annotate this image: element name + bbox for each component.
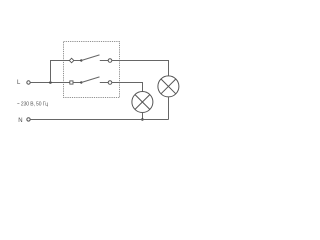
wire S1 output to lamp E2 [112, 61, 169, 76]
switch S1 output terminal (circle) [108, 59, 112, 63]
switch S2 lever [81, 77, 99, 83]
wire S2 fixed contact stub [100, 82, 108, 84]
wire S2 output to lamp E1 [112, 83, 143, 92]
switch S1 lever [81, 55, 99, 61]
svg-text:N: N [18, 118, 22, 124]
switch S2 pivot [80, 81, 82, 83]
wire S2 input to pivot [73, 82, 81, 84]
switch S1 input terminal (diamond) [69, 58, 74, 63]
wire S1 fixed contact stub [100, 60, 108, 62]
switch S2 input terminal (square) [70, 81, 73, 84]
wire N return [30, 119, 168, 121]
wire S1 input to pivot [74, 60, 82, 62]
svg-text:L: L [17, 80, 21, 86]
lamp E2 [158, 76, 179, 97]
switch module enclosure (dashed box) [64, 42, 120, 98]
junction lamp E1 / N [141, 118, 144, 121]
switch S2 output terminal (circle) [108, 81, 112, 85]
svg-text:~ 230 В, 50 Гц: ~ 230 В, 50 Гц [17, 102, 49, 108]
wire branch up to pole 1 [51, 61, 70, 83]
wire lamp E2 to N [168, 97, 170, 120]
node L terminal [17, 80, 30, 86]
switch S1 pivot [80, 59, 82, 61]
node N terminal [18, 118, 30, 124]
lamp E1 [132, 92, 153, 113]
wire lamp E1 to N [142, 112, 144, 119]
wire L feed [30, 82, 69, 84]
junction L branch [49, 81, 52, 84]
